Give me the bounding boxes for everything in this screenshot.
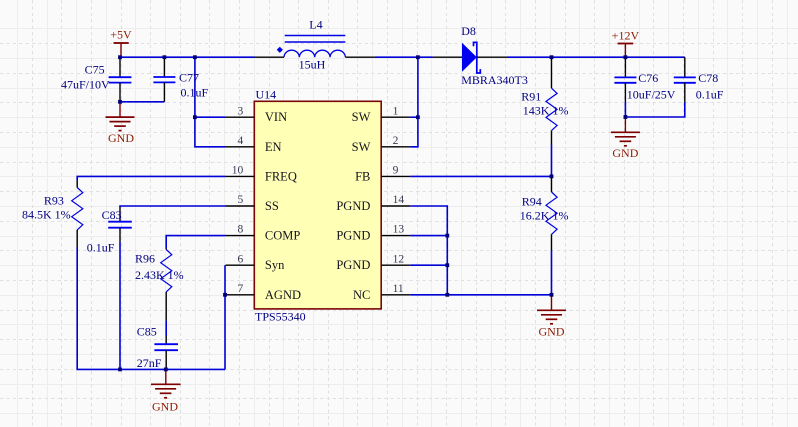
diode D8 MBRA340T3 (433, 24, 528, 87)
svg-text:+5V: +5V (110, 28, 132, 42)
svg-text:15uH: 15uH (299, 57, 326, 71)
wire R91 bottom (551, 145, 553, 177)
pin 8 COMP (226, 235, 255, 237)
pin 3 VIN (226, 116, 255, 118)
svg-text:7: 7 (238, 283, 244, 295)
resistor R91 (521, 57, 568, 144)
node C83 bottom (118, 368, 122, 372)
svg-text:1: 1 (393, 105, 399, 117)
wire ground rail to AGND/Syn vertical (224, 265, 226, 369)
wire FREQ to R93 (77, 176, 225, 180)
node R94 bottom (550, 293, 554, 297)
svg-text:C76: C76 (638, 71, 658, 85)
node FB (550, 175, 554, 179)
power +12V (612, 29, 640, 58)
node SW rail (416, 55, 420, 59)
svg-text:PGND: PGND (336, 199, 370, 213)
svg-text:+12V: +12V (612, 29, 640, 43)
node C76 bottom (624, 115, 628, 119)
pin 13 PGND (381, 235, 410, 237)
wire C76 bottom to C78 bottom (625, 103, 684, 118)
node R91 top (550, 55, 554, 59)
resistor R94 (520, 176, 569, 250)
pin 9 FB (381, 175, 410, 177)
svg-text:C77: C77 (179, 71, 199, 85)
svg-text:R94: R94 (522, 195, 542, 209)
svg-text:143K 1%: 143K 1% (523, 104, 569, 118)
svg-text:2: 2 (393, 135, 399, 147)
node VIN drop (193, 55, 197, 59)
svg-text:NC: NC (353, 288, 370, 302)
svg-text:MBRA340T3: MBRA340T3 (461, 73, 528, 87)
pin 7 AGND (226, 294, 255, 296)
svg-text:AGND: AGND (265, 288, 301, 302)
svg-text:16.2K 1%: 16.2K 1% (520, 209, 569, 223)
node PGND 11 (445, 293, 449, 297)
wire pin2 to SW vertical (410, 117, 418, 147)
svg-text:R93: R93 (44, 193, 64, 207)
svg-text:27nF: 27nF (137, 356, 162, 370)
svg-text:R96: R96 (135, 251, 155, 265)
svg-text:11: 11 (393, 283, 404, 295)
svg-text:3: 3 (238, 105, 244, 117)
wire pin11 to GND (410, 294, 551, 296)
svg-text:TPS55340: TPS55340 (255, 310, 306, 324)
svg-text:COMP: COMP (265, 229, 300, 243)
ground GND4 under C85 (151, 369, 181, 413)
node VIN pin (193, 115, 197, 119)
capacitor C83 (87, 207, 132, 254)
svg-text:5: 5 (238, 194, 244, 206)
wire to pin3 VIN (195, 116, 226, 118)
svg-text:SW: SW (352, 140, 371, 154)
svg-text:0.1uF: 0.1uF (181, 86, 209, 100)
resistor R96 (135, 248, 184, 321)
svg-text:GND: GND (539, 324, 565, 338)
pin 14 PGND (381, 205, 410, 207)
svg-text:FREQ: FREQ (265, 169, 297, 183)
node +12V (624, 55, 628, 59)
svg-text:Syn: Syn (265, 258, 285, 272)
wire SS to C83 (120, 206, 226, 207)
svg-text:EN: EN (265, 140, 282, 154)
svg-text:10uF/25V: 10uF/25V (627, 88, 676, 102)
svg-text:GND: GND (612, 146, 638, 160)
pin 1 SW (381, 116, 410, 118)
pin 4 EN (226, 146, 255, 148)
wire VIN/EN vertical from top rail (195, 57, 226, 147)
svg-text:PGND: PGND (336, 258, 370, 272)
pin 2 SW (381, 146, 410, 148)
svg-text:4: 4 (238, 135, 244, 147)
svg-text:12: 12 (393, 253, 405, 265)
node PGND 13 (445, 234, 449, 238)
wire SW vertical (417, 57, 419, 117)
pin 12 PGND (381, 264, 410, 266)
resistor R93 (22, 181, 83, 248)
svg-text:C75: C75 (85, 63, 105, 77)
svg-text:8: 8 (238, 224, 244, 236)
svg-text:84.5K 1%: 84.5K 1% (22, 208, 71, 222)
svg-text:47uF/10V: 47uF/10V (61, 78, 110, 92)
wire pin12 (410, 264, 447, 266)
svg-text:10: 10 (232, 165, 244, 177)
svg-text:14: 14 (393, 194, 405, 206)
svg-text:2.43K 1%: 2.43K 1% (135, 268, 184, 282)
wire R93 bottom to ground rail (77, 247, 225, 369)
svg-text:SS: SS (265, 199, 279, 213)
capacitor C85 (137, 324, 178, 370)
ground GND3 under R94 (537, 295, 566, 339)
node SW pin1 (416, 115, 420, 119)
power +5V (110, 28, 132, 58)
capacitor C75 (61, 57, 131, 102)
wire C75 bottom to C77 bottom (120, 101, 164, 103)
svg-text:PGND: PGND (336, 229, 370, 243)
node AGND pin7 (223, 293, 227, 297)
pin 5 SS (226, 205, 255, 207)
capacitor C78 (674, 57, 724, 102)
wire FB pin9 to R91/R94 junction (410, 175, 551, 177)
node C85 bottom (164, 368, 168, 372)
svg-text:0.1uF: 0.1uF (696, 88, 724, 102)
wire R94 bottom (551, 250, 553, 295)
svg-text:D8: D8 (461, 24, 476, 38)
node +5V rail / C75 (118, 55, 122, 59)
svg-text:GND: GND (108, 131, 134, 145)
wire pin13 (410, 235, 447, 237)
capacitor C76 (614, 57, 675, 117)
pin 6 Syn (226, 264, 255, 266)
pin 10 FREQ (226, 175, 255, 177)
svg-text:C78: C78 (698, 71, 718, 85)
svg-text:R91: R91 (521, 89, 541, 103)
svg-text:0.1uF: 0.1uF (87, 240, 115, 254)
IC U14 TPS55340 body (254, 101, 381, 309)
svg-text:9: 9 (393, 165, 399, 177)
ground GND1 under C75 (106, 102, 135, 145)
wire top rail +5V to L4 (120, 56, 255, 58)
svg-text:6: 6 (238, 253, 244, 265)
svg-text:U14: U14 (256, 88, 277, 102)
wire L4 to D8 (375, 56, 433, 58)
node PGND 12 (445, 263, 449, 267)
node C75 bottom (118, 100, 122, 104)
svg-text:FB: FB (355, 169, 370, 183)
wire R96 bottom to C85 (165, 321, 167, 336)
capacitor C77 (153, 57, 208, 102)
wire pin1 stub to SW vertical (410, 116, 418, 118)
wire D8 to C78 corner (508, 56, 685, 58)
wire pin14 to PGND vertical (410, 206, 447, 295)
svg-text:VIN: VIN (265, 110, 287, 124)
svg-text:C83: C83 (102, 208, 122, 222)
svg-text:L4: L4 (309, 18, 322, 32)
svg-text:13: 13 (393, 224, 405, 236)
pin 11 NC (381, 294, 410, 296)
svg-text:SW: SW (352, 110, 371, 124)
svg-text:GND: GND (152, 400, 178, 414)
ground GND2 under C76 (611, 117, 640, 160)
inductor L4 (255, 18, 375, 72)
wire COMP to R96 (166, 236, 225, 248)
svg-text:C85: C85 (137, 324, 157, 338)
node C77 top (163, 55, 167, 59)
wire C83 bottom (119, 242, 121, 369)
